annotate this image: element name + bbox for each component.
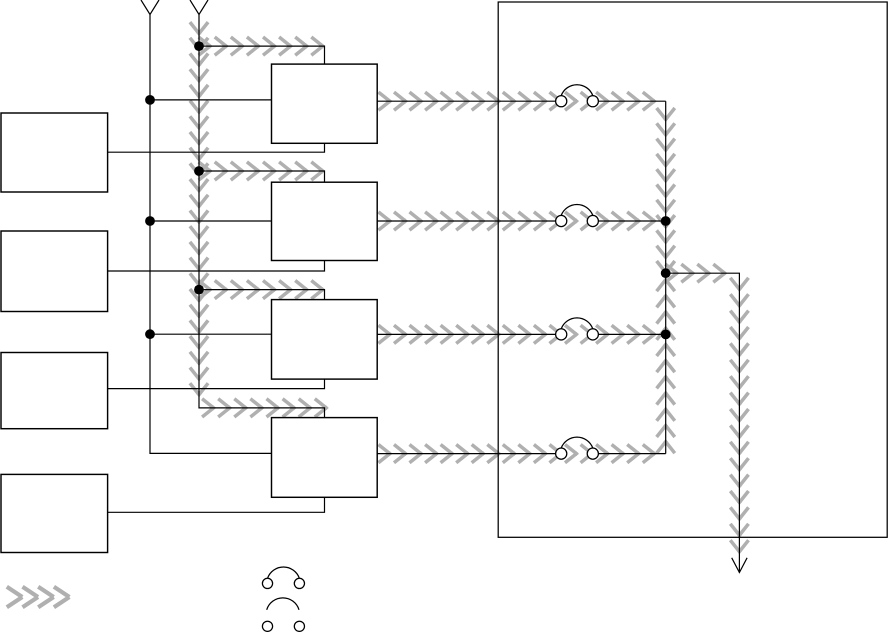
switchboard enclosure [498,2,887,537]
circuit breaker Q2 [556,204,599,226]
cable marking: outgoing line 1 to switchboard [378,92,655,110]
supply input arrow W1 [141,0,159,15]
cable marking: outgoing line 3 to switchboard [378,325,655,343]
supply input arrow W2 [190,0,208,15]
source block S2 [1,231,108,312]
wire: breaker 2 to bus [598,220,665,222]
cable marking: switchboard bus up run [657,279,675,454]
wire: unit 2 output to breaker 2 [377,220,555,222]
wire: W1 tap to unit 1 left input [150,99,272,101]
converter unit U4 [272,418,378,498]
cable marking: branch feed 4 horizontal [202,399,327,417]
converter unit U1 [272,64,378,143]
wire: breaker 3 to bus [598,333,665,335]
wire: branch feed 3 to unit top [199,290,325,300]
cable marking: outgoing main vertical drop [730,278,748,553]
junction bus/row3 [661,330,671,340]
converter unit U3 [272,300,378,380]
junction W1/row3 [145,329,155,339]
wire: branch feed 2 to unit top [199,171,325,182]
wire: breaker 1 to bus [598,100,665,102]
wire: source 4 output to unit 4 bottom [108,497,325,512]
circuit breaker Q4 [556,437,599,459]
outgoing arrow head [732,558,747,573]
cable marking: feeder bus W2 vertical run [190,22,208,396]
wire: feeder bus W1 vertical [150,15,272,454]
wire: unit 3 output to breaker 3 [377,333,555,335]
cable marking: outgoing line 2 to switchboard [378,212,655,230]
source block S4 [1,474,108,552]
cable marking: branch feed 1 horizontal [199,37,324,55]
source block S3 [1,353,108,429]
wire: switchboard bus vertical [665,101,667,453]
wire: breaker 4 to bus [598,453,665,455]
circuit breaker Q3 [556,318,599,340]
junction W1/row1 [145,95,155,105]
wire: source 1 output to unit 1 bottom [108,143,325,152]
cable marking: switchboard bus down run [657,108,675,274]
source block S1 [1,113,108,192]
junction W2/feed1 [194,41,204,51]
cable marking: outgoing line 4 to switchboard [378,445,655,463]
wire: source 3 output to unit 3 bottom [108,379,325,389]
wire: unit 1 output to breaker 1 [377,100,555,102]
junction W1/row2 [145,216,155,226]
wire: source 2 output to unit 2 bottom [108,261,325,272]
wire: branch feed 1 to unit top [199,46,325,64]
cable marking: branch feed 3 horizontal [199,281,324,299]
junction bus/row2 [661,216,671,226]
cable marking: branch feed 2 horizontal [199,162,324,180]
wire: W1 tap to unit 3 left input [150,333,272,335]
wire: feeder bus W2 vertical [199,15,325,418]
junction bus/outgoing [661,268,671,278]
junction W2/feed2 [194,166,204,176]
legend: breaker closed symbol [262,567,304,589]
legend: cable marking sample [7,587,70,607]
wire: unit 4 output to breaker 4 [377,453,555,455]
circuit breaker Q1 [556,85,599,107]
junction W2/feed3 [194,285,204,295]
wire: outgoing main [666,273,740,572]
legend: breaker open symbol [262,598,304,632]
cable marking: outgoing main horizontal [665,264,726,282]
wire: W1 tap to unit 2 left input [150,220,272,222]
converter unit U2 [272,182,378,260]
